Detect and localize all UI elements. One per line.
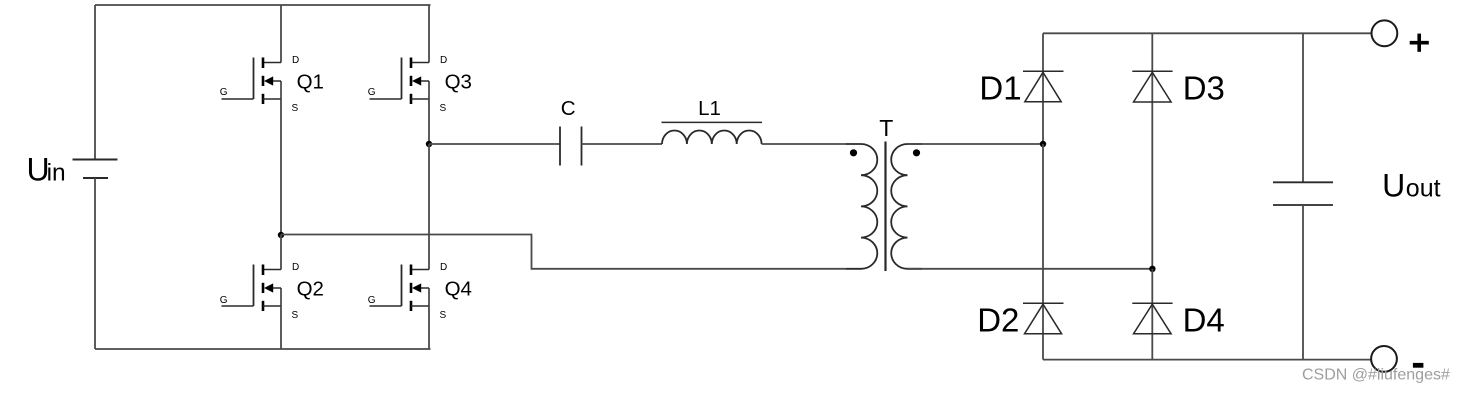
label Q1 [297,71,324,94]
svg-text:Q3: Q3 [445,71,472,94]
capacitor Cout top lead [1302,33,1304,182]
svg-text:S: S [440,103,447,114]
label C [561,97,576,120]
transformer T core [884,142,886,272]
terminal + circle [1372,20,1398,46]
wire: D2 to bottom rail [1042,303,1044,359]
label D4 [1183,302,1225,339]
pin label S (Q2) [292,310,299,321]
wire: L1 to transformer primary [762,143,846,145]
pin label S (Q1) [292,103,299,114]
label L1 [698,97,721,120]
wire: node B to Q4 drain [428,144,430,270]
pin label S (Q3) [440,103,447,114]
node A junction [278,232,284,238]
wire: Q4 source to bottom rail [428,306,430,349]
svg-text:D1: D1 [979,69,1021,106]
node C junction (secondary top / D1-D2) [1040,141,1046,147]
wire: D3 column (top rail through D3 to node D) [1151,33,1153,268]
diode D4 [1132,303,1172,334]
pin label S (Q4) [440,310,447,321]
label Uin [27,152,66,188]
label - [1413,363,1424,368]
wire: input top rail [95,4,431,6]
pin label G (Q2) [220,295,228,306]
svg-text:C: C [561,97,576,120]
svg-text:G: G [368,295,376,306]
transformer secondary polarity dot [913,149,920,156]
label D1 [979,69,1021,106]
svg-text:T: T [879,115,893,141]
svg-text:D4: D4 [1183,302,1225,339]
transformer T secondary winding [891,144,922,269]
label Q4 [445,277,472,300]
wire: input left vertical bottom (battery - lead) [94,178,96,349]
diode D1 [1023,71,1064,102]
transformer primary polarity dot [850,149,857,156]
svg-text:S: S [440,310,447,321]
transistor Q3 [370,58,430,105]
svg-text:Q1: Q1 [297,71,324,94]
label + [1410,34,1429,52]
svg-text:D3: D3 [1183,69,1225,106]
pin label D (Q4) [440,262,447,273]
diode D3 [1132,71,1172,102]
svg-text:S: S [292,310,299,321]
wire: D1 column (top rail through D1 to node C) [1042,33,1044,144]
wire: Q3 source to node B [428,99,430,144]
wire: secondary bottom to rectifier node D [908,268,1153,270]
label D2 [977,302,1019,339]
pin label G (Q4) [368,295,376,306]
wire: node B to capacitor C [429,143,560,145]
wire: rectifier bottom rail [1043,359,1371,361]
svg-text:G: G [220,87,228,98]
watermark [1302,367,1450,384]
wire: node A to Q2 drain [280,235,282,270]
svg-text:L1: L1 [698,97,721,120]
inductor L1 [662,122,763,144]
transistor Q2 [222,265,282,312]
svg-text:S: S [292,103,299,114]
svg-text:D2: D2 [977,302,1019,339]
battery Uin [73,160,118,179]
pin label D (Q2) [292,262,299,273]
svg-text:D: D [440,262,447,273]
wire: C to L1 [582,143,663,145]
transistor Q4 [370,265,430,312]
wire: D4 to bottom rail [1151,303,1153,359]
pin label D (Q1) [292,55,299,66]
svg-text:Q4: Q4 [445,277,472,300]
terminal - circle [1371,346,1397,372]
wire: input bottom rail [95,348,431,350]
wire: node A to transformer primary bottom [281,235,846,269]
label D3 [1183,69,1225,106]
svg-text:D: D [292,262,299,273]
svg-text:D: D [440,55,447,66]
wire: node C to D2 [1042,144,1044,303]
svg-text:G: G [220,295,228,306]
wire: leg B top (Q3 drain to top rail) [428,5,430,63]
wire: input left vertical top (battery + lead) [94,5,96,160]
pin label G (Q1) [220,87,228,98]
svg-text:D: D [292,55,299,66]
wire: secondary top to rectifier node C [908,143,1044,145]
label Q2 [297,277,324,300]
svg-text:out: out [1406,175,1441,203]
wire: node D to D4 [1151,269,1153,304]
transformer T primary winding [846,144,878,269]
transistor Q1 [222,58,282,105]
svg-text:G: G [368,87,376,98]
svg-text:CSDN @#liufenges#: CSDN @#liufenges# [1302,367,1450,384]
svg-text:Q2: Q2 [297,277,324,300]
pin label D (Q3) [440,55,447,66]
pin label G (Q3) [368,87,376,98]
wire: leg A top (Q1 drain to top rail) [280,5,282,63]
wire: Q1 source to node A [280,99,282,235]
wire: Q2 source to bottom rail [280,306,282,349]
node D junction (secondary bottom / D3-D4) [1149,266,1155,272]
svg-text:in: in [47,160,66,187]
label T [879,115,893,141]
capacitor Cout [1273,182,1333,205]
label Q3 [445,71,472,94]
diode D2 [1023,303,1064,334]
node B junction [426,141,432,147]
capacitor C [560,127,582,166]
svg-text:U: U [1382,168,1405,204]
label Uout [1382,168,1441,204]
capacitor Cout bottom lead [1302,205,1304,360]
wire: rectifier top rail [1043,32,1372,34]
